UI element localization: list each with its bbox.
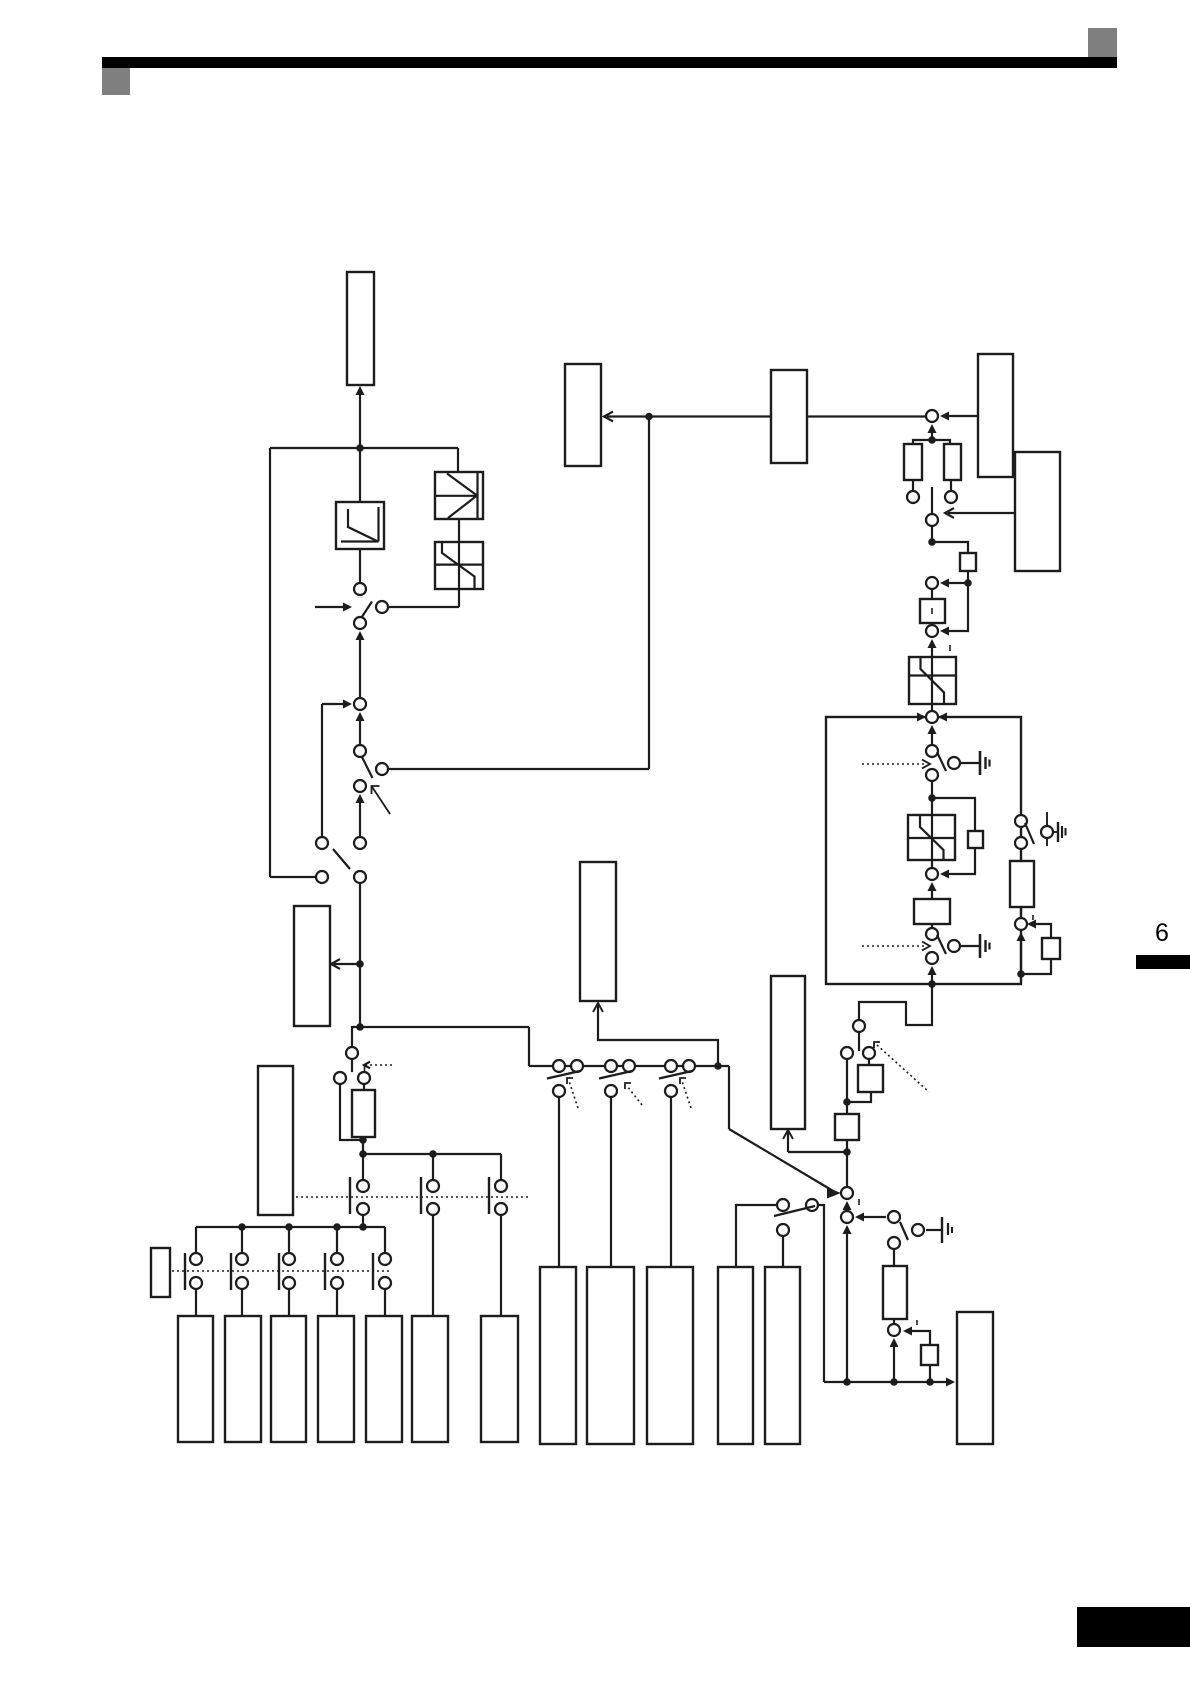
wire limiter to switch S1 <box>359 549 361 583</box>
wire S7 to box MC <box>670 1097 672 1267</box>
arrow up into N4 <box>928 639 937 648</box>
switch S6 dotted control <box>627 1086 642 1105</box>
wire left leg x=322 down <box>321 704 323 837</box>
wire B down to bus4 <box>843 1225 852 1234</box>
ramp block G2 <box>908 815 955 860</box>
dotted select line row1 <box>296 1196 528 1198</box>
bus2 drops to contact row2 <box>195 1227 197 1253</box>
S11 blade <box>937 935 946 954</box>
wire S4 left lower down <box>340 1084 361 1140</box>
PID box P <box>580 862 616 1001</box>
hold switch S11 top contact <box>926 928 938 940</box>
arrow up into N1 <box>356 712 365 721</box>
wire P input from bus3 <box>598 1003 718 1066</box>
arrow into N7 from SQ4 <box>1029 923 1047 925</box>
switch S4 blade <box>351 1059 353 1072</box>
wire S3 down to node <box>359 883 361 1027</box>
summing node N7 <box>1015 918 1027 930</box>
S10 blade <box>937 752 946 771</box>
accel block G1 <box>909 657 956 704</box>
switch S9 right contact <box>945 491 957 503</box>
S11 right contact <box>948 940 960 952</box>
arrow up into TR <box>783 1130 793 1139</box>
contact row1 K1 <box>349 1177 351 1214</box>
switch S1 right contact <box>376 601 388 613</box>
output box BR <box>957 1312 993 1444</box>
switch S2 blade <box>362 757 373 778</box>
contact row2 K5 <box>230 1253 232 1290</box>
contact row2 K4 <box>184 1253 186 1290</box>
arrow up into S11 <box>928 966 937 975</box>
G1 icon <box>921 657 945 704</box>
S14 lower contact <box>888 1237 900 1249</box>
wire horizontal bus y=448 <box>270 447 458 449</box>
node at (932,798) <box>928 794 936 802</box>
switch S4 dotted control <box>366 1064 392 1066</box>
wire M2 to summing node <box>807 415 926 417</box>
VF inner right border <box>476 472 478 519</box>
SC mid line <box>435 563 483 565</box>
branch to gain resistors <box>913 440 932 444</box>
reference box MD <box>718 1267 753 1444</box>
summing node N1 <box>354 698 366 710</box>
M3 right edge switch S12 contacts <box>1015 815 1027 827</box>
gain block NR <box>352 1090 375 1137</box>
switch S4 upper contact <box>346 1047 358 1059</box>
source select box SR <box>258 1066 293 1215</box>
monitor box B1r <box>978 354 1013 477</box>
contact row2 K8 <box>372 1253 374 1290</box>
wire S10 down <box>931 781 933 798</box>
node at NR output <box>359 1136 367 1144</box>
wire K2 to box B6 <box>432 1215 434 1316</box>
node at (968,583) <box>964 579 972 587</box>
block SQ2 <box>920 599 945 623</box>
diagonal wire to summing A <box>729 1129 834 1192</box>
switch S6 contacts <box>605 1060 617 1072</box>
wire S1 pivot down <box>359 640 361 698</box>
switch S8 blade <box>774 1206 815 1216</box>
arrow into box BR <box>946 1378 955 1387</box>
arrow into B from S14 <box>859 1216 886 1218</box>
VF mid line <box>435 495 478 497</box>
footer black box <box>1077 1607 1190 1647</box>
arrow up into S1 pivot <box>356 631 365 640</box>
summing node N3 <box>926 577 938 589</box>
wire drop to limiter <box>359 448 361 502</box>
node at (847,1152) <box>843 1148 851 1156</box>
switch S2 right contact <box>376 763 388 775</box>
S14 right contact <box>912 1224 924 1236</box>
bus1 y=1154 <box>363 1153 501 1155</box>
parameter box B4 <box>318 1316 354 1442</box>
switch S1 upper contact <box>354 583 366 595</box>
local reference box LB <box>294 906 330 1026</box>
gray header square left <box>102 68 130 95</box>
switch S7 dotted control <box>682 1081 691 1108</box>
arrow up into N6 <box>928 882 937 891</box>
dotted select line row2 <box>172 1270 390 1272</box>
wire into G1 <box>931 648 933 657</box>
switch S7 blade <box>659 1071 692 1079</box>
S13 dotted control <box>877 1045 929 1092</box>
switch S6 blade <box>599 1071 632 1079</box>
S10 dotted control <box>862 763 926 765</box>
arrow into summing A <box>827 1188 841 1199</box>
block SB1 <box>858 1065 883 1092</box>
gain block R3 on right edge <box>1010 861 1034 907</box>
bus2 y=1227 <box>196 1226 385 1228</box>
S13 lower contacts <box>841 1047 853 1059</box>
contact row1 K3 <box>488 1177 490 1214</box>
gray header square right <box>1088 28 1117 57</box>
arrow up into P <box>593 1003 603 1012</box>
jog wire from M3 bottom <box>859 984 932 1025</box>
switch S8 lower contact <box>777 1224 789 1236</box>
wire SQ1 down <box>967 571 969 583</box>
jog down to switch S4 <box>352 1027 360 1047</box>
G1 mid line <box>909 674 956 676</box>
arrow from box B1 into N2 <box>944 415 978 417</box>
V/f pattern block VF <box>435 472 483 519</box>
node bus1 left <box>359 1150 367 1158</box>
wire S2 right to feedback riser <box>388 768 649 770</box>
monitor box M1 <box>565 364 601 466</box>
bus3 left riser to y=1027 <box>528 1027 530 1066</box>
node at (360,1027) <box>356 1023 364 1031</box>
arrow up into D <box>890 1338 899 1347</box>
switch S2 actuator arrow <box>372 786 391 814</box>
crossover switch S3 contacts <box>316 837 328 849</box>
bus1 drops to contact row 1 <box>362 1154 364 1180</box>
wire R3 to N7 <box>1020 907 1022 918</box>
reference box MC <box>647 1267 693 1444</box>
wire NR to bus1 <box>362 1140 364 1154</box>
summing node N2 <box>926 410 938 422</box>
reference box ME <box>765 1267 800 1444</box>
node at (932,542) <box>928 538 936 546</box>
SQ4 top wire <box>1047 924 1051 938</box>
wire N3 to SQ2 <box>931 589 933 599</box>
node bus4 x=847 <box>843 1378 851 1386</box>
S14 blade <box>900 1222 908 1240</box>
S12 ground contact <box>1046 812 1048 826</box>
S-curve block SC <box>435 542 483 589</box>
wire K1 to bus2 <box>362 1215 364 1227</box>
wire S13 left down <box>846 1059 848 1102</box>
switch S8 right contact wire <box>818 1205 824 1382</box>
parameter box B6 <box>412 1316 448 1442</box>
S10 ground <box>960 762 980 764</box>
wire S13 right to SB1 <box>868 1059 870 1065</box>
SC through line <box>458 542 460 589</box>
wire S5 to box MA <box>558 1097 560 1267</box>
svg-text:6: 6 <box>1155 919 1169 947</box>
wire S8 lower to ME <box>782 1236 784 1267</box>
wire S4 right lower to NR <box>363 1084 365 1090</box>
VF chevron <box>447 474 477 519</box>
gain block R2 <box>944 444 961 480</box>
S11 dotted control <box>862 945 926 947</box>
switch S9 left contact <box>907 491 919 503</box>
bus y=1027 to multi-step bank <box>360 1026 529 1028</box>
arrow into local box LB <box>334 963 360 965</box>
wire down to summing A <box>846 1152 848 1187</box>
S11 lower contact <box>926 952 938 964</box>
G2 through line <box>931 798 933 868</box>
branch to block SQ1 <box>932 542 968 553</box>
switch S8 left contact wire <box>736 1205 777 1267</box>
switch S2 top contact <box>354 745 366 757</box>
wire into S3 from long left drop <box>270 876 316 878</box>
switch S8 contacts <box>777 1199 789 1211</box>
S14 ground <box>926 1229 942 1231</box>
wire S14 to RB <box>893 1249 895 1266</box>
wire S11 to M3 bottom <box>931 975 933 984</box>
node bus1 mid <box>429 1150 437 1158</box>
parameter box B3 <box>271 1316 306 1442</box>
block SQ1 <box>960 553 976 571</box>
wire R1 to S9 left contact <box>912 480 914 491</box>
switch S5 dotted control <box>569 1081 578 1108</box>
node below N2 <box>928 436 936 444</box>
arrow up into N7 <box>1017 932 1026 941</box>
summing node N6 <box>926 868 938 880</box>
contact row2 K6 <box>278 1253 280 1290</box>
switch S2 lower contact <box>354 780 366 792</box>
node at (847,1102) <box>843 1098 851 1106</box>
arrow into box M1 <box>604 412 613 422</box>
monitor box TR <box>771 976 805 1129</box>
summing node D <box>888 1324 900 1336</box>
parameter box B7 <box>481 1316 518 1442</box>
summing node N4 <box>926 625 938 637</box>
reference box MA <box>540 1267 576 1444</box>
arrow into box T <box>356 386 365 395</box>
monitor box M2 <box>771 370 807 463</box>
monitor box B2r <box>1015 452 1060 571</box>
wire N1 down <box>359 721 361 745</box>
S10 right contact <box>948 757 960 769</box>
switch S1 input arrow <box>315 606 344 608</box>
wire to output box T <box>359 395 361 448</box>
contact row1 K2 <box>420 1177 422 1214</box>
gain block RB <box>883 1266 907 1319</box>
wire to monitor box TR <box>788 1151 847 1153</box>
switch S3 blade <box>333 849 350 869</box>
wire to SB2 <box>846 1102 848 1114</box>
page header rule <box>102 57 1117 68</box>
S13 blade <box>858 1033 860 1051</box>
node at (360,448) <box>356 444 364 452</box>
wire R2 to S9 right contact <box>950 480 952 491</box>
arrow into D from E2 <box>907 1331 930 1345</box>
wire y448 corner down to V/f <box>457 448 459 472</box>
multi-function input box SL <box>151 1248 170 1297</box>
wire RB to D <box>893 1319 895 1324</box>
block SB2 <box>835 1114 859 1140</box>
arrow from box B2 into S9 <box>948 512 1015 514</box>
S11 ground <box>960 945 980 947</box>
parameter box B5 <box>366 1316 402 1442</box>
block SQ4 <box>1042 938 1060 959</box>
arrow up into S2 lower <box>356 794 365 803</box>
summing node B <box>841 1211 853 1223</box>
chapter edge tab <box>1136 955 1190 969</box>
switch S9 pivot <box>926 514 938 526</box>
wire D to bus4 <box>893 1347 895 1382</box>
wire G1 to M3 <box>931 704 933 711</box>
wire S1 right to V/f chain <box>388 606 459 608</box>
switch S1 blade <box>362 602 373 618</box>
S12 blade <box>1025 823 1034 844</box>
contact row2 K7 <box>324 1253 326 1290</box>
branch SQ3 to N6 <box>944 848 975 874</box>
switch S1 pivot <box>354 617 366 629</box>
switch S5 contacts <box>553 1060 565 1072</box>
summing node N5 on M3 top edge <box>917 713 926 722</box>
switch S13 top contact <box>853 1020 865 1032</box>
limiter L1 icon <box>348 509 378 542</box>
bus4 y=1382 <box>824 1381 950 1383</box>
node bus3 at x=718 <box>714 1062 722 1070</box>
parameter box B2 <box>225 1316 261 1442</box>
switch S7 lower contact <box>665 1085 677 1097</box>
block PB <box>914 899 950 924</box>
arrow into N3 <box>944 582 968 584</box>
switch S7 contacts <box>665 1060 677 1072</box>
wire SC down to S1 <box>458 589 460 607</box>
arrow up into N2 <box>928 424 937 433</box>
node at (360,964) <box>356 960 364 968</box>
feedback riser x=649 <box>648 417 650 770</box>
wire K3 to box B7 <box>500 1215 502 1316</box>
G2 icon <box>920 815 944 860</box>
wire SB1 down <box>847 1092 871 1102</box>
block SQ3 <box>968 831 983 848</box>
node bus4 x=894 <box>890 1378 898 1386</box>
reference box MB <box>587 1267 634 1444</box>
wire S9 down <box>931 526 933 542</box>
node at (1021,974) <box>1017 970 1025 978</box>
node at (649,417) <box>645 413 653 421</box>
block E2 <box>921 1345 938 1365</box>
switch S5 lower contact <box>553 1085 565 1097</box>
wire S2 lower down <box>359 803 361 837</box>
node bus2 at K1 drop <box>359 1223 367 1231</box>
bus3 y=1066 <box>529 1065 729 1067</box>
wire SB2 down <box>846 1140 848 1152</box>
SC icon <box>442 542 475 589</box>
node bus4 x=930 <box>926 1378 934 1386</box>
wire SQ2 to N4 <box>931 623 933 625</box>
summing node A <box>841 1187 853 1199</box>
wire y=417 between M1 and M2 <box>607 415 771 417</box>
wire left drop x=270 <box>269 448 271 877</box>
G1 through line <box>931 657 933 704</box>
wire E2 to bus4 <box>929 1365 931 1382</box>
gain block R1 <box>904 444 922 480</box>
switch S6 lower contact <box>605 1085 617 1097</box>
wires row2 to parameter boxes <box>195 1289 197 1316</box>
switch S14 left contact <box>888 1211 900 1223</box>
hold switch S10 top contact <box>926 745 938 757</box>
bus3 corner to diagonal <box>728 1066 730 1129</box>
branch SQ1 to N4 <box>944 583 968 631</box>
switch S4 lower contacts <box>334 1072 346 1084</box>
wire S6 to box MB <box>610 1097 612 1267</box>
parameter box B1 <box>178 1316 213 1442</box>
output box T <box>347 272 374 385</box>
wire PB to S11 <box>931 924 933 928</box>
arrow into N1 from left leg <box>322 703 344 705</box>
switch S9 blade <box>931 487 933 513</box>
node on M3 bottom edge <box>928 980 936 988</box>
arrow up into B <box>843 1201 852 1210</box>
S10 lower contact <box>926 769 938 781</box>
switch S5 blade <box>547 1071 580 1079</box>
arrow up into N5 <box>928 725 937 734</box>
limiter block L1 <box>336 502 384 549</box>
SQ4 bottom wire <box>1021 959 1051 974</box>
controller block M3 outline <box>826 717 1021 984</box>
wire VF to SC <box>458 519 460 542</box>
branch to block SQ3 <box>932 798 975 831</box>
G2 mid line <box>908 837 955 839</box>
